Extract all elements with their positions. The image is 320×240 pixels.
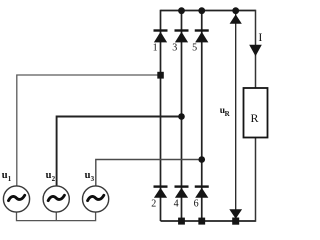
arrowhead: uR arrow up (top) <box>230 14 242 23</box>
junction dot: top rail / leg 3 <box>198 7 205 14</box>
diode 3 (top leg 2) <box>175 29 189 42</box>
wire: neutral link joining the three sources <box>17 212 96 221</box>
diode 2 (bottom leg 1) <box>154 185 168 197</box>
wire: phase u1 connection (L-shape) <box>17 75 161 186</box>
junction dot: leg 3 / u3 wire <box>198 156 205 163</box>
wire: bottom DC rail <box>161 220 256 222</box>
svg-text:2: 2 <box>52 175 56 183</box>
diode 5 (top leg 3) <box>195 29 209 42</box>
svg-text:4: 4 <box>174 198 179 209</box>
diode 6 (bottom leg 3) <box>195 185 209 197</box>
svg-text:2: 2 <box>151 198 156 209</box>
wire: phase u2 connection (L-shape) <box>57 117 182 187</box>
arrowhead: uR arrow down (bottom) <box>229 209 242 219</box>
wire: right branch from top rail to resistor <box>255 10 257 88</box>
ac source U1 <box>3 186 29 212</box>
junction dot: bottom rail / uR arrow <box>232 218 239 225</box>
junction dot: bottom rail / leg 3 <box>198 218 205 225</box>
wire: bridge leg 3 (vertical) <box>201 11 203 222</box>
wire: bridge leg 1 (vertical) <box>160 10 162 221</box>
junction dot: leg 2 / u2 wire <box>178 113 185 120</box>
svg-text:6: 6 <box>194 198 199 209</box>
wire: phase u3 connection (L-shape) <box>96 160 202 187</box>
svg-text:1: 1 <box>8 175 12 183</box>
junction dot: bottom rail / leg 2 <box>178 218 185 225</box>
ac source U2 <box>43 186 69 212</box>
resistor R (load) <box>244 88 268 138</box>
junction dot: top rail / uR arrow <box>232 7 239 14</box>
svg-text:R: R <box>225 110 231 118</box>
diode 4 (bottom leg 2) <box>175 185 189 197</box>
diode 1 (top leg 1) <box>154 29 168 42</box>
svg-text:1: 1 <box>153 42 158 53</box>
svg-text:I: I <box>258 30 262 44</box>
ac source U3 <box>83 186 109 212</box>
arrowhead: current I arrow on right branch <box>249 45 262 56</box>
wire: uR voltage arrow line <box>235 11 237 220</box>
svg-text:5: 5 <box>192 42 197 53</box>
svg-text:3: 3 <box>172 42 177 53</box>
junction dot: leg 1 / u1 wire <box>157 72 164 79</box>
wire: bridge leg 2 (vertical) <box>181 11 183 222</box>
svg-text:R: R <box>251 111 259 125</box>
svg-text:3: 3 <box>91 175 95 183</box>
junction dot: top rail / leg 2 <box>178 7 185 14</box>
wire: resistor bottom to bottom rail <box>255 138 257 222</box>
wire: top DC rail <box>161 10 256 12</box>
wire: neutral stub of source u2 <box>55 212 57 221</box>
